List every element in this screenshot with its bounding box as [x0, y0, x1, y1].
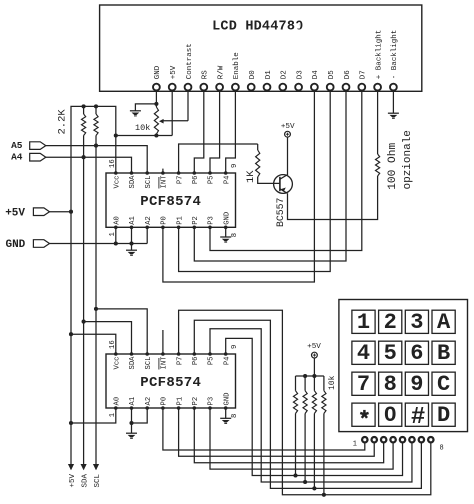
keypad connector label 1	[353, 441, 357, 449]
svg-text:B: B	[437, 341, 450, 366]
junction 2.2K left top	[82, 104, 86, 108]
keypad key D	[432, 403, 455, 428]
keypad key 8	[379, 372, 402, 397]
svg-text:P6: P6	[192, 176, 200, 185]
wire U2 P5 to keypad pin 6	[210, 329, 412, 482]
svg-text:P2: P2	[192, 397, 200, 406]
svg-text:10k: 10k	[328, 375, 337, 390]
svg-text:D6: D6	[344, 70, 352, 80]
junction U1 A0	[114, 241, 118, 245]
wire U1 A0 down	[115, 227, 117, 243]
LCD pin 7 D0	[248, 70, 257, 91]
LCD pin 16 - Backlight	[390, 30, 399, 91]
svg-text:SCL: SCL	[145, 357, 153, 370]
svg-text:PCF8574: PCF8574	[140, 194, 201, 210]
svg-text:Enable: Enable	[233, 52, 241, 79]
wire Enable to P4	[226, 91, 236, 173]
connector A4	[11, 152, 46, 163]
wire R/W to P5	[210, 91, 220, 173]
wire U1 Vcc riser	[115, 136, 117, 174]
keypad key 1	[352, 310, 375, 335]
svg-text:P3: P3	[208, 397, 216, 406]
label 100 Ohm	[387, 143, 399, 190]
transistor Q1 BC557	[274, 175, 293, 194]
IC U2 bottom pins	[114, 393, 232, 410]
LCD pin 9 D2	[279, 70, 288, 90]
svg-text:D1: D1	[265, 70, 273, 80]
resistor R 1K	[256, 144, 280, 183]
IC U1 pin16 label	[109, 159, 117, 168]
junction pullup 3	[312, 486, 316, 490]
connector +5V	[5, 207, 49, 219]
svg-text:10k: 10k	[135, 123, 150, 133]
wire U2 A0 to +5V	[71, 408, 116, 423]
svg-text:D2: D2	[281, 70, 289, 79]
IC U1 top pins	[114, 171, 232, 188]
svg-text:PCF8574: PCF8574	[140, 375, 201, 391]
IC U2 top pins	[114, 352, 232, 369]
wire U2 P1 to keypad pin 2	[179, 408, 375, 456]
junction rail 305	[303, 374, 307, 378]
svg-text:Contrast: Contrast	[186, 43, 194, 79]
IC U2 pin16 label	[109, 340, 117, 349]
svg-text:P2: P2	[192, 216, 200, 225]
svg-text:6: 6	[410, 341, 423, 366]
IC U1 pin8 label	[231, 233, 239, 237]
svg-text:SCL: SCL	[145, 176, 153, 189]
keypad key 3	[405, 310, 428, 335]
IC U1 pin1 label	[109, 232, 117, 236]
svg-text:C: C	[437, 372, 450, 397]
wire LCD GND pin down	[155, 91, 157, 104]
LCD pin 5 R/W	[216, 65, 225, 90]
svg-text:D: D	[437, 403, 450, 428]
resistor R 100 Ohm	[376, 91, 380, 176]
wire LCD +5V pin down	[171, 91, 173, 135]
svg-text:SCL: SCL	[94, 473, 102, 487]
svg-text:D4: D4	[312, 70, 320, 80]
IC U1 PCF8574 box	[106, 173, 236, 227]
ground near LCD GND	[130, 111, 141, 116]
wire U1 A2 down	[146, 227, 148, 243]
svg-text:GND: GND	[223, 393, 231, 406]
svg-text:100 Ohm: 100 Ohm	[387, 143, 399, 190]
svg-text:A0: A0	[114, 397, 122, 406]
resistor 10k pullup 2	[303, 376, 307, 482]
IC U1 pin9 label	[231, 164, 239, 168]
junction U1 A1	[129, 241, 133, 245]
LCD pin 2 +5V	[169, 65, 178, 90]
svg-text:BC557: BC557	[275, 197, 286, 227]
junction +5V tap U2	[69, 332, 73, 336]
IC U2 label	[140, 375, 201, 391]
svg-text:+5V: +5V	[307, 343, 321, 351]
svg-text:A0: A0	[114, 216, 122, 225]
resistor 2.2K (SCL)	[94, 106, 98, 145]
svg-text:5: 5	[384, 341, 397, 366]
pullup rail	[296, 375, 324, 377]
svg-text:1: 1	[357, 310, 370, 335]
keypad key 2	[379, 310, 402, 335]
ground U2 A1	[126, 433, 137, 438]
keypad connector label 8	[440, 445, 444, 453]
junction GND/pot/ground	[154, 102, 158, 106]
LCD pin 10 D3	[295, 70, 304, 91]
svg-text:P7: P7	[176, 176, 184, 185]
junction SDA tap U2	[82, 320, 86, 324]
svg-text:+5V: +5V	[69, 473, 77, 487]
IC U2 pin8 label	[231, 414, 239, 418]
wire collector to 100 Ohm	[288, 176, 378, 220]
svg-text:2: 2	[384, 310, 397, 335]
wire D7 to P3	[210, 91, 362, 250]
label 10k pullups	[328, 375, 337, 390]
power +5V transistor	[281, 123, 295, 137]
wire U2 A2 to A1	[132, 408, 148, 423]
wire +5V to emitter	[287, 137, 289, 175]
svg-text:GND: GND	[5, 239, 25, 251]
wire A5 to SCL pin	[46, 146, 147, 173]
wire U2 P0 to keypad pin 1	[163, 408, 365, 450]
wire RS to P6	[194, 91, 204, 173]
junction Vcc riser	[114, 133, 118, 137]
rail SCL vertical	[95, 146, 97, 470]
junction pot bottom	[154, 133, 158, 137]
keypad key 7	[352, 372, 375, 397]
ground -Backlight	[388, 113, 399, 118]
svg-text:P6: P6	[192, 357, 200, 366]
LCD pin 13 D6	[343, 70, 352, 91]
svg-text:INT: INT	[161, 175, 169, 189]
wire D5 to P1	[179, 91, 331, 271]
svg-text:LCD HD44780: LCD HD44780	[212, 20, 303, 35]
wire +5V to pullup rail	[313, 358, 315, 376]
wire U2 P2 to keypad pin 3	[194, 408, 383, 463]
svg-text:A1: A1	[129, 397, 137, 406]
wire U2 A1 to ground	[131, 408, 133, 433]
arrow SCL rail end	[93, 464, 102, 488]
LCD pin 1 GND	[153, 65, 162, 90]
junction pullup 4	[322, 493, 326, 497]
svg-text:P4: P4	[223, 176, 231, 185]
svg-text:+5V: +5V	[170, 65, 178, 79]
svg-text:8: 8	[231, 414, 239, 418]
svg-text:P7: P7	[176, 357, 184, 366]
svg-text:P5: P5	[208, 176, 216, 185]
svg-text:#: #	[411, 404, 425, 431]
keypad key C	[432, 372, 455, 397]
junction 2.2K right top	[94, 104, 98, 108]
svg-text:SDA: SDA	[129, 356, 137, 370]
LCD pin 4 RS	[200, 70, 209, 91]
keypad key #	[405, 403, 428, 431]
svg-text:P1: P1	[176, 397, 184, 406]
keypad connector pins	[362, 437, 433, 442]
LCD pin 12 D5	[327, 70, 336, 91]
svg-text:8: 8	[231, 233, 239, 237]
junction SCL tap U2	[94, 307, 98, 311]
svg-text:A2: A2	[145, 216, 153, 225]
svg-text:A: A	[437, 310, 451, 335]
svg-text:3: 3	[410, 310, 423, 335]
svg-text:4: 4	[357, 341, 370, 366]
junction U2 A1/A2	[129, 421, 133, 425]
ground U1 A1	[126, 250, 137, 255]
junction +5V rail	[69, 210, 73, 214]
resistor 10k pullup 4	[322, 376, 326, 495]
wire U1 A1 to ground	[131, 227, 133, 250]
wire SDA tap to U2	[84, 322, 132, 354]
junction SCL rail	[94, 144, 98, 148]
svg-text:1: 1	[353, 441, 357, 449]
svg-text:Vcc: Vcc	[114, 176, 122, 189]
wire P7 to 1K	[179, 144, 258, 173]
IC U1 label	[140, 194, 201, 210]
label 2.2K	[56, 109, 68, 135]
svg-text:P0: P0	[161, 397, 169, 406]
svg-text:Vcc: Vcc	[114, 357, 122, 370]
svg-text:8: 8	[384, 372, 397, 397]
LCD module box	[100, 5, 422, 91]
arrow +5V rail end	[68, 464, 77, 488]
keypad key *	[352, 403, 375, 426]
IC U2 PCF8574 box	[106, 354, 236, 408]
svg-text:P0: P0	[161, 216, 169, 225]
svg-text:2.2K: 2.2K	[56, 109, 68, 135]
label 1K	[245, 170, 257, 183]
resistor 2.2K (SDA)	[82, 106, 86, 157]
svg-text:+5V: +5V	[5, 207, 25, 219]
rail +5V vertical	[70, 212, 72, 470]
wire +5V top rail	[71, 106, 116, 211]
keypad key 4	[352, 341, 375, 366]
svg-text:A4: A4	[11, 152, 23, 163]
wire U2 GND pin	[225, 408, 227, 418]
svg-text:A2: A2	[145, 397, 153, 406]
power +5V keypad	[307, 343, 321, 358]
ground U1 GND	[220, 237, 231, 242]
svg-text:+ Backlight: + Backlight	[375, 30, 383, 80]
junction SDA rail	[82, 155, 86, 159]
svg-text:- Backlight: - Backlight	[391, 30, 399, 80]
wire D6 to P2	[194, 91, 346, 261]
junction pullup 2	[303, 480, 307, 484]
connector A5	[11, 140, 46, 151]
svg-text:P1: P1	[176, 216, 184, 225]
svg-text:GND: GND	[154, 65, 162, 79]
svg-text:8: 8	[440, 445, 444, 453]
wire SCL tap to U2	[96, 309, 147, 354]
connector GND	[5, 239, 49, 251]
wire +5V connector	[50, 211, 72, 213]
pot wiper arrow	[159, 119, 188, 124]
keypad key B	[432, 341, 455, 366]
svg-text:SDA: SDA	[82, 473, 90, 487]
svg-text:GND: GND	[223, 212, 231, 225]
wire U2 P4 to keypad pin 5	[226, 338, 403, 475]
junction rail 314	[312, 374, 316, 378]
svg-text:opzionale: opzionale	[402, 130, 414, 189]
svg-text:INT: INT	[161, 356, 169, 370]
svg-text:D7: D7	[360, 70, 368, 79]
wire +5V tap to U2 Vcc	[71, 334, 116, 354]
svg-text:P5: P5	[208, 357, 216, 366]
resistor 10k pullup 3	[312, 376, 316, 488]
svg-text:D0: D0	[249, 70, 257, 80]
junction pullup 1	[293, 473, 297, 477]
ground U2 GND	[220, 418, 231, 423]
svg-text:A5: A5	[11, 140, 23, 151]
arrow SDA rail end	[81, 464, 90, 488]
svg-text:D3: D3	[296, 70, 304, 80]
wire -Backlight to ground	[392, 91, 394, 113]
svg-text:P4: P4	[223, 357, 231, 366]
svg-text:9: 9	[231, 345, 239, 349]
keypad key 9	[405, 372, 428, 397]
resistor 10k pullup 1	[293, 376, 297, 476]
svg-text:P3: P3	[208, 216, 216, 225]
wire U2 P3 to keypad pin 4	[210, 408, 393, 469]
svg-text:R/W: R/W	[217, 65, 225, 79]
junction U2 A0 +5V	[69, 421, 73, 425]
wire U2 P6 to keypad pin 7	[194, 320, 421, 488]
IC U2 pin9 label	[231, 345, 239, 349]
label BC557	[275, 197, 286, 227]
svg-text:9: 9	[410, 372, 423, 397]
keypad key 0	[379, 403, 402, 428]
wire U1 GND pin	[225, 227, 227, 237]
keypad key 6	[405, 341, 428, 366]
keypad key A	[432, 310, 455, 335]
svg-text:9: 9	[231, 164, 239, 168]
wire +5V horizontal to Vcc riser	[116, 135, 172, 137]
LCD pin 3 Contrast	[185, 43, 194, 90]
LCD pin 6 Enable	[232, 52, 241, 90]
label opzionale	[402, 130, 414, 189]
wire to ground	[135, 104, 156, 111]
keypad key 5	[379, 341, 402, 366]
LCD pin 15 + Backlight	[374, 30, 383, 91]
potentiometer R 10k body	[154, 104, 158, 136]
wire U2 P7 to keypad pin 8	[179, 310, 431, 495]
wire Contrast pin down	[187, 91, 189, 121]
label 10k potentiometer	[135, 123, 150, 133]
svg-text:7: 7	[357, 372, 370, 397]
svg-text:+5V: +5V	[281, 123, 295, 131]
IC U1 INT stub	[162, 169, 164, 173]
LCD title HD44780	[212, 20, 303, 35]
LCD pin 14 D7	[358, 70, 367, 90]
wire A4 to SDA pin	[46, 157, 132, 173]
svg-text:A1: A1	[129, 216, 137, 225]
wire GND connector to A2	[50, 243, 148, 245]
svg-text:RS: RS	[202, 70, 210, 80]
IC U2 INT stub	[162, 330, 164, 354]
LCD pin 11 D4	[311, 70, 320, 91]
LCD pin 8 D1	[264, 70, 273, 91]
svg-text:SDA: SDA	[129, 175, 137, 189]
keypad box	[339, 300, 468, 432]
rail SDA vertical	[83, 157, 85, 469]
IC U1 bottom pins	[114, 212, 232, 229]
svg-text:D5: D5	[328, 70, 336, 80]
IC U2 pin1 label	[109, 413, 117, 417]
svg-text:1K: 1K	[245, 170, 257, 183]
wire D4 to P0	[163, 91, 315, 282]
